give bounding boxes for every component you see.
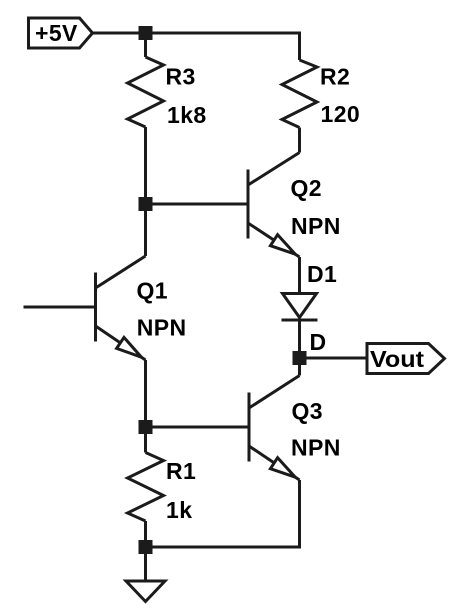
svg-text:120: 120 (321, 101, 361, 127)
wire +5V rail top (93, 33, 300, 60)
wire junction to R3 top (144, 33, 147, 57)
junction node D (293, 351, 307, 365)
svg-text:R2: R2 (320, 63, 350, 89)
resistor R1 (128, 453, 164, 522)
wire junction down to R1 top (144, 427, 147, 453)
wire node D to Vout flag (300, 357, 368, 360)
svg-text:R1: R1 (166, 458, 196, 484)
svg-text:NPN: NPN (291, 435, 341, 461)
transistor Q3 (249, 376, 300, 481)
wire junction to Q2 base (146, 203, 249, 206)
svg-text:1k: 1k (166, 497, 192, 523)
svg-text:1k8: 1k8 (167, 102, 207, 128)
svg-text:Vout: Vout (370, 346, 424, 372)
wire D1 cathode to node D (298, 320, 301, 358)
transistor Q1 (96, 256, 146, 360)
wire node D down to Q3 collector (298, 358, 301, 376)
junction node base of Q3 (139, 420, 153, 434)
svg-text:Q1: Q1 (137, 277, 168, 303)
svg-text:Q2: Q2 (291, 175, 322, 201)
svg-text:Q3: Q3 (292, 398, 323, 424)
wire R1 bottom to ground junction (144, 521, 147, 547)
wire Q1 base stub (24, 306, 96, 309)
wire junction to Q3 base (146, 426, 250, 429)
wire Q1 emitter to lower junction (144, 360, 147, 427)
power flag +5V (29, 18, 93, 48)
svg-text:+5V: +5V (35, 20, 78, 46)
diode D1 (282, 294, 318, 321)
junction node base of Q2 (139, 197, 153, 211)
wire ground rail to Q3 emitter (146, 480, 300, 547)
wire junction down to Q1 collector (144, 204, 147, 256)
wire junction to ground symbol (144, 547, 147, 581)
wire R2 bottom to Q2 collector (298, 128, 301, 153)
wire Q2 emitter to D1 anode (298, 257, 301, 294)
ground (126, 581, 165, 602)
svg-text:D1: D1 (307, 261, 337, 287)
resistor R3 (128, 57, 164, 127)
svg-text:D: D (310, 329, 327, 355)
resistor R2 (282, 60, 317, 128)
transistor Q2 (248, 153, 300, 258)
junction ground node (139, 540, 153, 554)
wire R3 bottom to node junction (144, 127, 147, 204)
svg-text:NPN: NPN (137, 315, 187, 341)
svg-text:R3: R3 (166, 64, 196, 90)
junction on +5V rail (139, 26, 153, 40)
output flag Vout (367, 344, 445, 374)
svg-text:NPN: NPN (291, 213, 341, 239)
